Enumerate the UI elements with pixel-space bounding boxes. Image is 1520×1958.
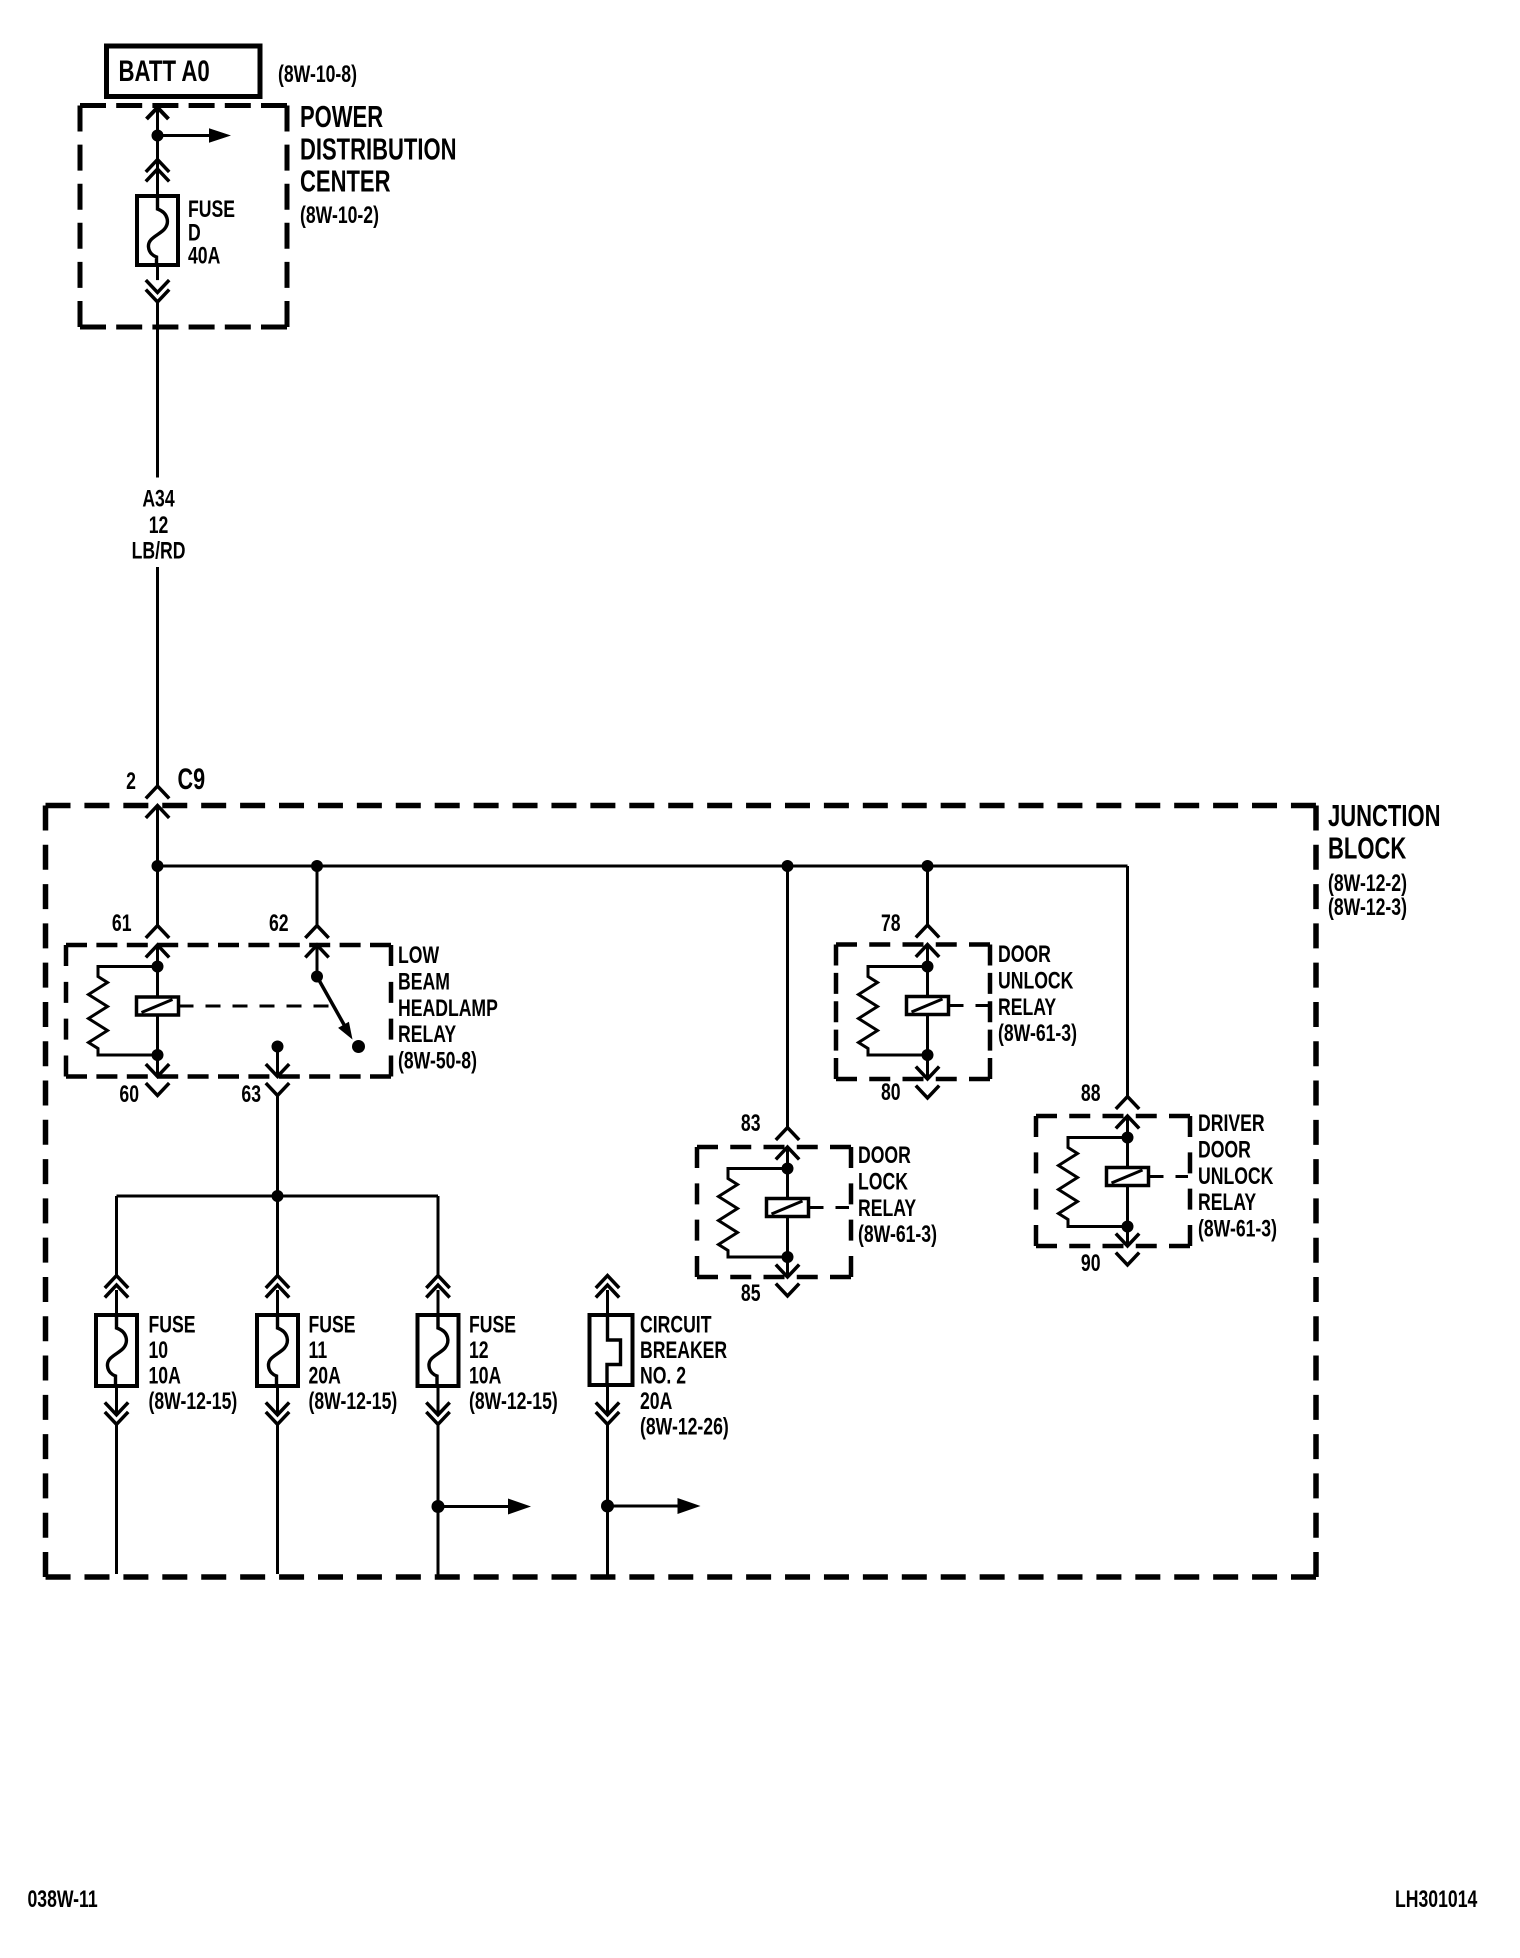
relay resistor: [89, 967, 158, 1056]
svg-text:LB/RD: LB/RD: [132, 537, 186, 565]
pin 85 crossing: [776, 1265, 799, 1277]
fuse 12 drop wire: [437, 1196, 440, 1276]
bus junction dot A: [152, 860, 164, 872]
fuse 10 bottom stub: [115, 1386, 118, 1415]
door unlock relay top dot: [922, 961, 934, 973]
pin 88 crossing: [1116, 1097, 1139, 1109]
door unlock relay top wire: [926, 947, 929, 997]
svg-text:(8W-61-3): (8W-61-3): [1198, 1215, 1277, 1243]
fuse bus junction dot: [272, 1190, 284, 1202]
svg-text:DOOR: DOOR: [1198, 1136, 1251, 1164]
fuse 11 bottom stub: [276, 1386, 279, 1415]
svg-text:BEAM: BEAM: [398, 968, 450, 996]
fuse 12 element: [429, 1315, 448, 1386]
circuit breaker output arrow: [608, 1505, 678, 1508]
fuse 12 top pins: [426, 1276, 449, 1288]
svg-text:80: 80: [881, 1078, 901, 1106]
door lock relay top wire: [786, 1149, 789, 1199]
pin 80 wire: [926, 1055, 929, 1078]
fuse 12 top stub: [437, 1290, 440, 1315]
connector pins below fuse D: [146, 280, 169, 292]
wire C9 to bus: [156, 807, 159, 866]
svg-text:JUNCTION: JUNCTION: [1328, 798, 1440, 833]
fuse 10 drop wire: [115, 1196, 118, 1276]
door lock relay box: [697, 1145, 851, 1150]
svg-text:(8W-12-3): (8W-12-3): [1328, 893, 1407, 921]
svg-text:038W-11: 038W-11: [28, 1885, 98, 1913]
svg-text:LH301014: LH301014: [1395, 1885, 1477, 1913]
circuit breaker output wire: [606, 1424, 609, 1578]
svg-text:20A: 20A: [309, 1362, 341, 1390]
svg-text:BATT A0: BATT A0: [119, 54, 210, 88]
svg-text:DOOR: DOOR: [858, 1141, 911, 1169]
svg-text:2: 2: [126, 767, 136, 795]
door unlock relay resistor: [859, 967, 928, 1056]
pin 62 crossing: [305, 926, 328, 938]
svg-text:83: 83: [741, 1109, 761, 1137]
svg-text:40A: 40A: [188, 242, 220, 270]
door lock relay top dot: [782, 1163, 794, 1175]
svg-text:POWER: POWER: [300, 99, 383, 134]
svg-text:RELAY: RELAY: [858, 1194, 916, 1222]
svg-text:UNLOCK: UNLOCK: [998, 967, 1074, 995]
bus junction dot B: [311, 860, 323, 872]
relay pin 63 wire: [276, 1047, 279, 1076]
fuse 12 bottom stub: [437, 1386, 440, 1415]
relay coil link dashed: [179, 1005, 332, 1008]
svg-text:10A: 10A: [149, 1362, 181, 1390]
svg-text:61: 61: [112, 909, 132, 937]
circuit breaker top pins: [596, 1276, 619, 1288]
svg-text:FUSE: FUSE: [309, 1311, 356, 1339]
relay coil top dot: [152, 961, 164, 973]
door lock relay coil: [767, 1199, 809, 1217]
bus wire: [158, 865, 1128, 868]
relay coil U1: [137, 997, 179, 1015]
fuse 12 output wire: [437, 1424, 440, 1578]
door unlock relay box: [836, 942, 990, 947]
door unlock relay bottom dot: [922, 1049, 934, 1061]
fuse 10 top stub: [115, 1290, 118, 1315]
circuit breaker top stub: [606, 1290, 609, 1315]
svg-text:HEADLAMP: HEADLAMP: [398, 994, 498, 1022]
svg-text:DRIVER: DRIVER: [1198, 1109, 1265, 1137]
door lock relay bottom dot: [782, 1251, 794, 1263]
svg-text:90: 90: [1081, 1249, 1101, 1277]
svg-text:60: 60: [119, 1080, 139, 1108]
fuse 10 box: [96, 1315, 137, 1386]
bus junction dot D: [922, 860, 934, 872]
svg-text:(8W-61-3): (8W-61-3): [998, 1019, 1077, 1047]
svg-text:11: 11: [309, 1336, 328, 1364]
bus junction dot C: [782, 860, 794, 872]
fuse 10 output wire: [115, 1424, 118, 1574]
svg-text:(8W-12-15): (8W-12-15): [469, 1387, 558, 1415]
connector C9 crossing: [146, 786, 169, 798]
svg-text:(8W-12-26): (8W-12-26): [640, 1413, 729, 1441]
svg-text:BREAKER: BREAKER: [640, 1336, 727, 1364]
relay switch common dot: [311, 971, 323, 983]
power distribution center dashed box: [80, 103, 287, 108]
driver relay bottom wire: [1126, 1186, 1129, 1227]
svg-text:(8W-10-2): (8W-10-2): [300, 201, 379, 229]
wire A34 lower segment: [156, 567, 159, 786]
svg-text:85: 85: [741, 1279, 761, 1307]
driver relay coil link: [1149, 1175, 1189, 1178]
pin 60 wire: [156, 1055, 159, 1076]
svg-text:(8W-10-8): (8W-10-8): [278, 60, 357, 88]
fuse 12 output arrow: [438, 1505, 508, 1508]
svg-text:20A: 20A: [640, 1387, 672, 1415]
svg-text:(8W-50-8): (8W-50-8): [398, 1047, 477, 1075]
pin 80 crossing: [916, 1067, 939, 1079]
pin 61 crossing: [146, 926, 169, 938]
svg-text:CENTER: CENTER: [300, 164, 390, 199]
relay coil bottom wire: [156, 1015, 159, 1055]
fuse D element: [148, 196, 167, 265]
svg-text:RELAY: RELAY: [398, 1020, 456, 1048]
fuse 12 output dot: [432, 1500, 445, 1513]
circuit breaker bottom stub: [606, 1385, 609, 1415]
svg-text:DISTRIBUTION: DISTRIBUTION: [300, 132, 456, 167]
driver relay resistor: [1059, 1138, 1128, 1227]
pin 60 crossing: [146, 1064, 169, 1076]
door lock relay bottom wire: [786, 1217, 789, 1258]
door lock relay coil link: [809, 1206, 850, 1209]
svg-text:NO. 2: NO. 2: [640, 1362, 686, 1390]
driver relay top wire: [1126, 1118, 1129, 1168]
driver relay coil: [1107, 1168, 1149, 1186]
relay coil bottom dot: [152, 1049, 164, 1061]
connector pins above fuse D: [146, 160, 169, 172]
arrowhead into BATT A0: [147, 108, 169, 120]
fuse D box: [137, 196, 178, 265]
fuse 11 output wire: [276, 1424, 279, 1574]
relay pin 63 dot: [272, 1041, 284, 1053]
fuse 11 element: [268, 1315, 287, 1386]
fuse 12 box: [418, 1315, 459, 1386]
circuit breaker output dot: [601, 1500, 614, 1513]
svg-text:BLOCK: BLOCK: [1328, 831, 1407, 866]
pin 63 crossing: [266, 1064, 289, 1076]
driver relay top dot: [1122, 1132, 1134, 1144]
svg-text:10A: 10A: [469, 1362, 501, 1390]
circuit breaker box: [590, 1315, 633, 1385]
fuse 12 bottom pins: [426, 1402, 449, 1414]
pin 83 crossing: [776, 1128, 799, 1140]
fuse 11 box: [257, 1315, 298, 1386]
connector BATT A0 box: [107, 46, 261, 97]
svg-text:12: 12: [149, 511, 169, 539]
svg-text:88: 88: [1081, 1079, 1101, 1107]
relay coil top wire: [156, 947, 159, 997]
svg-text:UNLOCK: UNLOCK: [1198, 1162, 1274, 1190]
junction dot PDC: [152, 130, 164, 142]
door unlock relay coil link: [949, 1004, 989, 1007]
fuse 10 element: [107, 1315, 126, 1386]
svg-text:78: 78: [881, 909, 901, 937]
wire to relay pin 62: [316, 866, 319, 926]
driver relay bottom dot: [1122, 1221, 1134, 1233]
door lock relay resistor: [719, 1169, 788, 1258]
relay switch common wire: [316, 947, 319, 977]
wire to relay pin 61: [156, 866, 159, 926]
fuse 11 top pins: [266, 1276, 289, 1288]
svg-text:LOCK: LOCK: [858, 1168, 908, 1196]
pin 78 crossing: [916, 925, 939, 937]
svg-text:63: 63: [241, 1080, 261, 1108]
fuse bus wire: [117, 1195, 439, 1198]
wire to relay pin 78: [926, 866, 929, 925]
fuse 11 drop wire: [276, 1196, 279, 1276]
svg-text:(8W-12-15): (8W-12-15): [149, 1387, 238, 1415]
svg-text:62: 62: [269, 909, 289, 937]
svg-text:RELAY: RELAY: [998, 993, 1056, 1021]
relay switch blade: [320, 981, 345, 1026]
svg-text:DOOR: DOOR: [998, 940, 1051, 968]
circuit breaker bottom pins: [596, 1402, 619, 1414]
door unlock relay coil: [907, 997, 949, 1015]
svg-text:12: 12: [469, 1336, 489, 1364]
door unlock relay bottom wire: [926, 1015, 929, 1056]
fuse 10 bottom pins: [105, 1402, 128, 1414]
fuse 11 top stub: [276, 1290, 279, 1315]
relay NO contact dot: [352, 1040, 365, 1053]
svg-text:10: 10: [149, 1336, 169, 1364]
pin 90 crossing: [1116, 1234, 1139, 1246]
svg-text:C9: C9: [178, 761, 206, 795]
circuit breaker element: [607, 1315, 621, 1385]
driver door unlock relay box: [1036, 1114, 1190, 1119]
fuse 10 top pins: [105, 1276, 128, 1288]
svg-text:(8W-12-15): (8W-12-15): [309, 1387, 398, 1415]
svg-text:FUSE: FUSE: [469, 1311, 516, 1339]
wire 63 to fuse bus: [276, 1097, 279, 1197]
pin 90 wire: [1126, 1227, 1129, 1246]
svg-text:A34: A34: [142, 485, 174, 513]
junction block dashed box: [46, 803, 1317, 809]
svg-text:LOW: LOW: [398, 941, 440, 969]
svg-text:CIRCUIT: CIRCUIT: [640, 1311, 711, 1339]
arrow to other circuits: [158, 134, 210, 137]
svg-text:RELAY: RELAY: [1198, 1188, 1256, 1216]
svg-text:FUSE: FUSE: [149, 1311, 196, 1339]
wire BATT feed: [156, 108, 159, 197]
relay switch arrowhead: [338, 1022, 352, 1040]
pin 85 wire: [786, 1257, 789, 1276]
svg-text:(8W-61-3): (8W-61-3): [858, 1220, 937, 1248]
fuse 11 bottom pins: [266, 1402, 289, 1414]
wire to junction block: [156, 265, 159, 280]
low beam headlamp relay box: [66, 943, 391, 948]
wire to relay pin 83: [786, 866, 789, 1128]
wire to relay pin 88: [1126, 866, 1129, 1097]
